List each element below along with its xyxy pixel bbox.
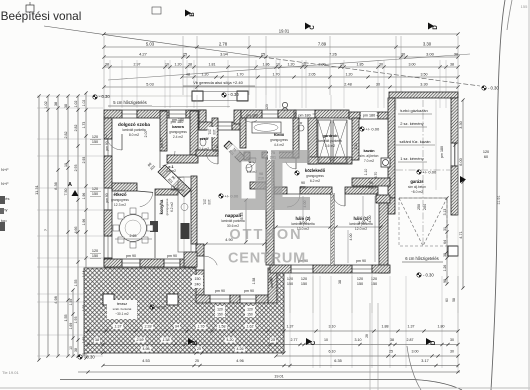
svg-text:garázs: garázs [410, 179, 424, 184]
svg-text:25: 25 [183, 52, 188, 57]
svg-text:25: 25 [261, 52, 266, 57]
svg-text:1.70: 1.70 [237, 73, 244, 77]
svg-text:Tle 19.01: Tle 19.01 [2, 370, 19, 375]
svg-text:1.73: 1.73 [82, 122, 86, 129]
svg-text:gardrob: gardrob [322, 133, 338, 138]
svg-text:~8.0 m2: ~8.0 m2 [411, 190, 423, 194]
svg-text:150: 150 [301, 282, 307, 286]
svg-text:3.94: 3.94 [220, 52, 229, 57]
svg-text:+/- 0.00: +/- 0.00 [366, 127, 380, 132]
svg-text:sim. alj.beton: sim. alj.beton [360, 154, 379, 158]
svg-text:1.96: 1.96 [82, 219, 86, 226]
svg-text:19.01: 19.01 [274, 375, 284, 379]
svg-text:10: 10 [69, 346, 73, 350]
svg-text:38: 38 [54, 102, 58, 106]
svg-text:25: 25 [197, 347, 201, 351]
svg-text:5.03: 5.03 [146, 42, 155, 47]
svg-text:1.20: 1.20 [202, 73, 209, 77]
svg-text:30: 30 [443, 227, 447, 231]
svg-text:1.85: 1.85 [357, 63, 364, 67]
svg-text:7.0 m2: 7.0 m2 [364, 159, 374, 163]
svg-text:25: 25 [389, 350, 393, 354]
svg-text:?: ? [44, 229, 48, 231]
svg-text:98: 98 [443, 279, 447, 283]
svg-text:8.0 m2: 8.0 m2 [129, 133, 139, 137]
svg-text:150: 150 [247, 313, 253, 317]
svg-text:38: 38 [95, 338, 99, 342]
svg-text:2.82: 2.82 [74, 125, 78, 132]
svg-text:3.13: 3.13 [443, 209, 447, 216]
svg-text:3.30: 3.30 [420, 83, 427, 87]
svg-text:90: 90 [301, 181, 305, 185]
svg-text:2.2 m2: 2.2 m2 [166, 169, 176, 173]
svg-text:+/- 0.00: +/- 0.00 [423, 170, 437, 175]
svg-text:150: 150 [92, 192, 98, 196]
svg-text:6.00: 6.00 [459, 158, 463, 165]
svg-text:120: 120 [371, 277, 377, 281]
svg-text:12.0 m2: 12.0 m2 [355, 227, 367, 231]
svg-text:2.05: 2.05 [309, 73, 316, 77]
svg-text:3.10: 3.10 [329, 325, 336, 329]
svg-text:2.82: 2.82 [64, 132, 68, 139]
svg-text:1.02: 1.02 [74, 101, 78, 108]
svg-text:grangogress: grangogress [111, 198, 129, 202]
svg-text:240: 240 [195, 283, 201, 287]
svg-text:pm 90: pm 90 [244, 289, 254, 293]
svg-text:30: 30 [401, 52, 406, 57]
svg-text:120: 120 [92, 135, 98, 139]
svg-text:11.31: 11.31 [34, 184, 39, 194]
svg-text:konyha: konyha [159, 199, 164, 214]
svg-text:1.93: 1.93 [74, 317, 78, 324]
svg-text:7.50: 7.50 [64, 189, 68, 196]
svg-text:2.00: 2.00 [319, 63, 326, 67]
svg-text:grangogress: grangogress [306, 174, 324, 178]
svg-text:4.98: 4.98 [54, 296, 58, 303]
svg-text:10: 10 [64, 163, 68, 167]
svg-text:1.37: 1.37 [287, 325, 294, 329]
svg-text:2 sz. kémény: 2 sz. kémény [400, 121, 424, 126]
svg-text:201: 201 [300, 186, 306, 190]
svg-text:2.87: 2.87 [407, 338, 414, 342]
svg-text:1.80: 1.80 [438, 325, 445, 329]
svg-text:turbó gázkazán: turbó gázkazán [400, 108, 427, 113]
svg-text:pm 180: pm 180 [246, 114, 258, 118]
svg-text:3.30: 3.30 [459, 121, 463, 128]
svg-text:pm 90: pm 90 [160, 138, 164, 148]
svg-text:30: 30 [450, 338, 454, 342]
svg-text:201: 201 [208, 129, 212, 135]
svg-text:pm 90: pm 90 [167, 254, 177, 258]
svg-text:OTTHON: OTTHON [229, 227, 302, 243]
svg-text:38: 38 [105, 63, 109, 67]
svg-text:1.55: 1.55 [74, 280, 78, 287]
svg-text:2.59: 2.59 [137, 338, 144, 342]
svg-text:150: 150 [217, 313, 223, 317]
svg-text:terasz: terasz [117, 302, 127, 306]
svg-text:10: 10 [340, 63, 344, 67]
svg-text:19.01: 19.01 [279, 29, 290, 34]
svg-text:pm 180: pm 180 [440, 146, 444, 158]
svg-text:nappali: nappali [225, 213, 241, 218]
svg-text:B: B [193, 340, 199, 345]
svg-text:60: 60 [445, 298, 449, 302]
svg-text:5.03: 5.03 [146, 83, 153, 87]
svg-text:28: 28 [365, 334, 369, 338]
svg-text:5 cm hőszigetelés: 5 cm hőszigetelés [113, 100, 147, 105]
svg-text:3.00: 3.00 [412, 350, 419, 354]
svg-text:szab. burkolat: szab. burkolat [113, 307, 132, 311]
svg-text:pm 180: pm 180 [172, 118, 184, 122]
svg-text:1.50: 1.50 [269, 277, 273, 284]
svg-text:A: A [68, 182, 72, 188]
svg-text:1.69: 1.69 [69, 323, 73, 330]
svg-text:1.58: 1.58 [219, 325, 226, 329]
svg-text:201: 201 [368, 186, 374, 190]
svg-text:2.4 m2: 2.4 m2 [173, 135, 183, 139]
svg-text:120: 120 [357, 277, 363, 281]
svg-text:120: 120 [217, 308, 223, 312]
svg-text:fürdő: fürdő [274, 132, 285, 137]
svg-text:4.98: 4.98 [143, 347, 150, 351]
svg-text:pm 180: pm 180 [363, 114, 375, 118]
svg-text:38: 38 [338, 280, 342, 284]
svg-text:60: 60 [484, 155, 488, 159]
svg-text:4.4 m2: 4.4 m2 [274, 143, 284, 147]
svg-text:pm 90: pm 90 [356, 259, 366, 263]
svg-text:10: 10 [302, 63, 306, 67]
svg-text:N+F: N+F [1, 181, 9, 186]
svg-text:3.50: 3.50 [421, 73, 428, 77]
svg-text:1.26: 1.26 [443, 265, 447, 272]
svg-text:150: 150 [92, 254, 98, 258]
svg-text:szélf: szélf [200, 136, 210, 141]
svg-text:1.20: 1.20 [346, 73, 353, 77]
svg-text:4.66: 4.66 [74, 227, 78, 234]
svg-text:4.00: 4.00 [349, 234, 353, 241]
svg-text:1.55: 1.55 [64, 315, 68, 322]
svg-text:4.96: 4.96 [236, 359, 243, 363]
svg-text:D: D [433, 25, 439, 30]
svg-text:1 sz. kémény: 1 sz. kémény [400, 156, 424, 161]
svg-text:94: 94 [175, 325, 179, 329]
svg-text:3.6 m2: 3.6 m2 [325, 144, 335, 148]
svg-text:- 0.30: - 0.30 [423, 273, 434, 278]
svg-text:3.70: 3.70 [374, 172, 378, 179]
svg-text:38: 38 [64, 104, 68, 108]
svg-text:120: 120 [265, 104, 269, 110]
svg-text:6 cm hőszigetelés: 6 cm hőszigetelés [405, 256, 439, 261]
svg-text:250: 250 [417, 204, 421, 210]
svg-text:dolgozó szoba: dolgozó szoba [118, 122, 150, 127]
svg-text:2.10: 2.10 [354, 143, 358, 150]
svg-text:1.58: 1.58 [252, 278, 256, 285]
svg-text:120: 120 [483, 150, 489, 154]
svg-text:- 0.30: - 0.30 [228, 92, 239, 97]
svg-text:1.37: 1.37 [115, 325, 122, 329]
svg-text:4.26: 4.26 [237, 347, 244, 351]
svg-text:10: 10 [165, 63, 169, 67]
svg-text:pm 90: pm 90 [126, 254, 136, 258]
svg-text:Beépítési vonal: Beépítési vonal [1, 9, 82, 23]
svg-text:155: 155 [521, 4, 528, 9]
svg-text:- 0.30: - 0.30 [488, 86, 499, 91]
svg-text:4.71: 4.71 [459, 231, 463, 238]
svg-text:150: 150 [92, 140, 98, 144]
svg-text:12.3 m2: 12.3 m2 [114, 203, 126, 207]
svg-text:8.36: 8.36 [54, 182, 58, 189]
svg-text:38: 38 [74, 348, 78, 352]
svg-text:90: 90 [369, 181, 373, 185]
svg-text:1.02: 1.02 [82, 100, 86, 107]
svg-text:64: 64 [443, 240, 447, 244]
svg-text:201: 201 [203, 199, 207, 205]
svg-text:25: 25 [195, 359, 199, 363]
svg-text:1.88: 1.88 [382, 325, 389, 329]
svg-text:1.37: 1.37 [408, 325, 415, 329]
svg-text:120: 120 [92, 187, 98, 191]
svg-text:1.76: 1.76 [198, 325, 205, 329]
svg-text:laminált parketta: laminált parketta [122, 128, 146, 132]
svg-text:~30.1 m2: ~30.1 m2 [115, 312, 129, 316]
svg-text:1.02: 1.02 [44, 101, 48, 108]
svg-text:30: 30 [450, 350, 454, 354]
svg-text:étkező: étkező [113, 192, 126, 197]
svg-text:4.00: 4.00 [368, 216, 372, 223]
svg-text:grangogress: grangogress [169, 130, 187, 134]
svg-text:10: 10 [324, 338, 328, 342]
svg-text:120: 120 [247, 308, 253, 312]
svg-text:120: 120 [301, 277, 307, 281]
svg-text:30: 30 [379, 63, 383, 67]
svg-text:3.17: 3.17 [421, 359, 428, 363]
svg-text:3.00: 3.00 [409, 63, 416, 67]
svg-text:+0.02: +0.02 [156, 306, 166, 310]
svg-text:grangogress: grangogress [270, 138, 288, 142]
svg-text:2.93: 2.93 [82, 157, 86, 164]
svg-text:5.45: 5.45 [240, 213, 244, 220]
svg-text:pm 90: pm 90 [105, 193, 109, 202]
svg-text:Vb gerenda alsó síkja +2.40: Vb gerenda alsó síkja +2.40 [193, 80, 243, 85]
svg-text:pm 180: pm 180 [298, 114, 310, 118]
svg-text:150: 150 [357, 282, 363, 286]
svg-text:38: 38 [188, 63, 192, 67]
svg-text:2.77: 2.77 [291, 338, 298, 342]
svg-text:közlekedő: közlekedő [305, 168, 326, 173]
svg-text:7.26: 7.26 [329, 52, 338, 57]
svg-text:N+F: N+F [1, 167, 9, 172]
svg-text:szilárd tüz. kazán: szilárd tüz. kazán [400, 139, 431, 144]
svg-text:grangogress: grangogress [165, 198, 169, 215]
svg-text:2.65: 2.65 [130, 234, 137, 238]
svg-text:kamra: kamra [172, 124, 185, 129]
svg-text:6.35: 6.35 [334, 359, 341, 363]
svg-text:- 0.30: - 0.30 [99, 94, 110, 99]
svg-text:3.10: 3.10 [355, 338, 362, 342]
svg-text:2.93: 2.93 [74, 165, 78, 172]
svg-text:1.10: 1.10 [364, 169, 368, 176]
svg-text:6.10: 6.10 [329, 350, 336, 354]
svg-text:3.00: 3.00 [426, 52, 435, 57]
svg-text:120: 120 [92, 249, 98, 253]
svg-text:11.91: 11.91 [497, 195, 501, 204]
svg-text:6.2 m2: 6.2 m2 [170, 202, 174, 212]
svg-text:150: 150 [195, 277, 201, 281]
svg-text:38: 38 [450, 63, 454, 67]
svg-text:201: 201 [213, 149, 219, 153]
svg-text:10: 10 [276, 63, 280, 67]
svg-text:3.30: 3.30 [423, 42, 432, 47]
svg-text:150: 150 [371, 282, 377, 286]
svg-text:2.4 m2: 2.4 m2 [199, 147, 209, 151]
svg-text:48: 48 [186, 73, 190, 77]
svg-text:204: 204 [423, 204, 427, 210]
svg-text:kazán: kazán [363, 148, 375, 153]
svg-text:58: 58 [452, 298, 456, 302]
svg-text:6.2 m2: 6.2 m2 [310, 179, 320, 183]
svg-text:D: D [431, 340, 437, 345]
svg-text:pm 90: pm 90 [215, 289, 225, 293]
svg-text:2.48: 2.48 [344, 83, 351, 87]
svg-text:1.81: 1.81 [209, 63, 216, 67]
svg-text:4.53: 4.53 [142, 359, 149, 363]
svg-text:1.96: 1.96 [82, 193, 86, 200]
svg-text:1.20: 1.20 [175, 63, 182, 67]
svg-text:38: 38 [443, 253, 447, 257]
svg-text:25: 25 [271, 338, 275, 342]
svg-text:B: B [190, 12, 196, 17]
svg-text:1.20: 1.20 [288, 63, 295, 67]
svg-text:laminált parketta: laminált parketta [318, 139, 342, 143]
svg-text:38: 38 [390, 338, 394, 342]
svg-text:2.78: 2.78 [219, 42, 228, 47]
svg-text:C: C [310, 25, 316, 30]
svg-text:2.28: 2.28 [145, 325, 152, 329]
svg-text:3.00: 3.00 [358, 221, 365, 225]
svg-text:4.27: 4.27 [139, 52, 148, 57]
svg-text:- 0.30: - 0.30 [84, 355, 95, 360]
svg-text:1.38: 1.38 [163, 338, 170, 342]
svg-text:CENTRUM: CENTRUM [228, 251, 306, 267]
svg-text:1.62: 1.62 [247, 325, 254, 329]
svg-text:7.89: 7.89 [318, 42, 327, 47]
svg-text:4.20: 4.20 [227, 338, 234, 342]
svg-text:sim alj.beton: sim alj.beton [408, 185, 426, 189]
svg-text:C: C [311, 340, 317, 345]
